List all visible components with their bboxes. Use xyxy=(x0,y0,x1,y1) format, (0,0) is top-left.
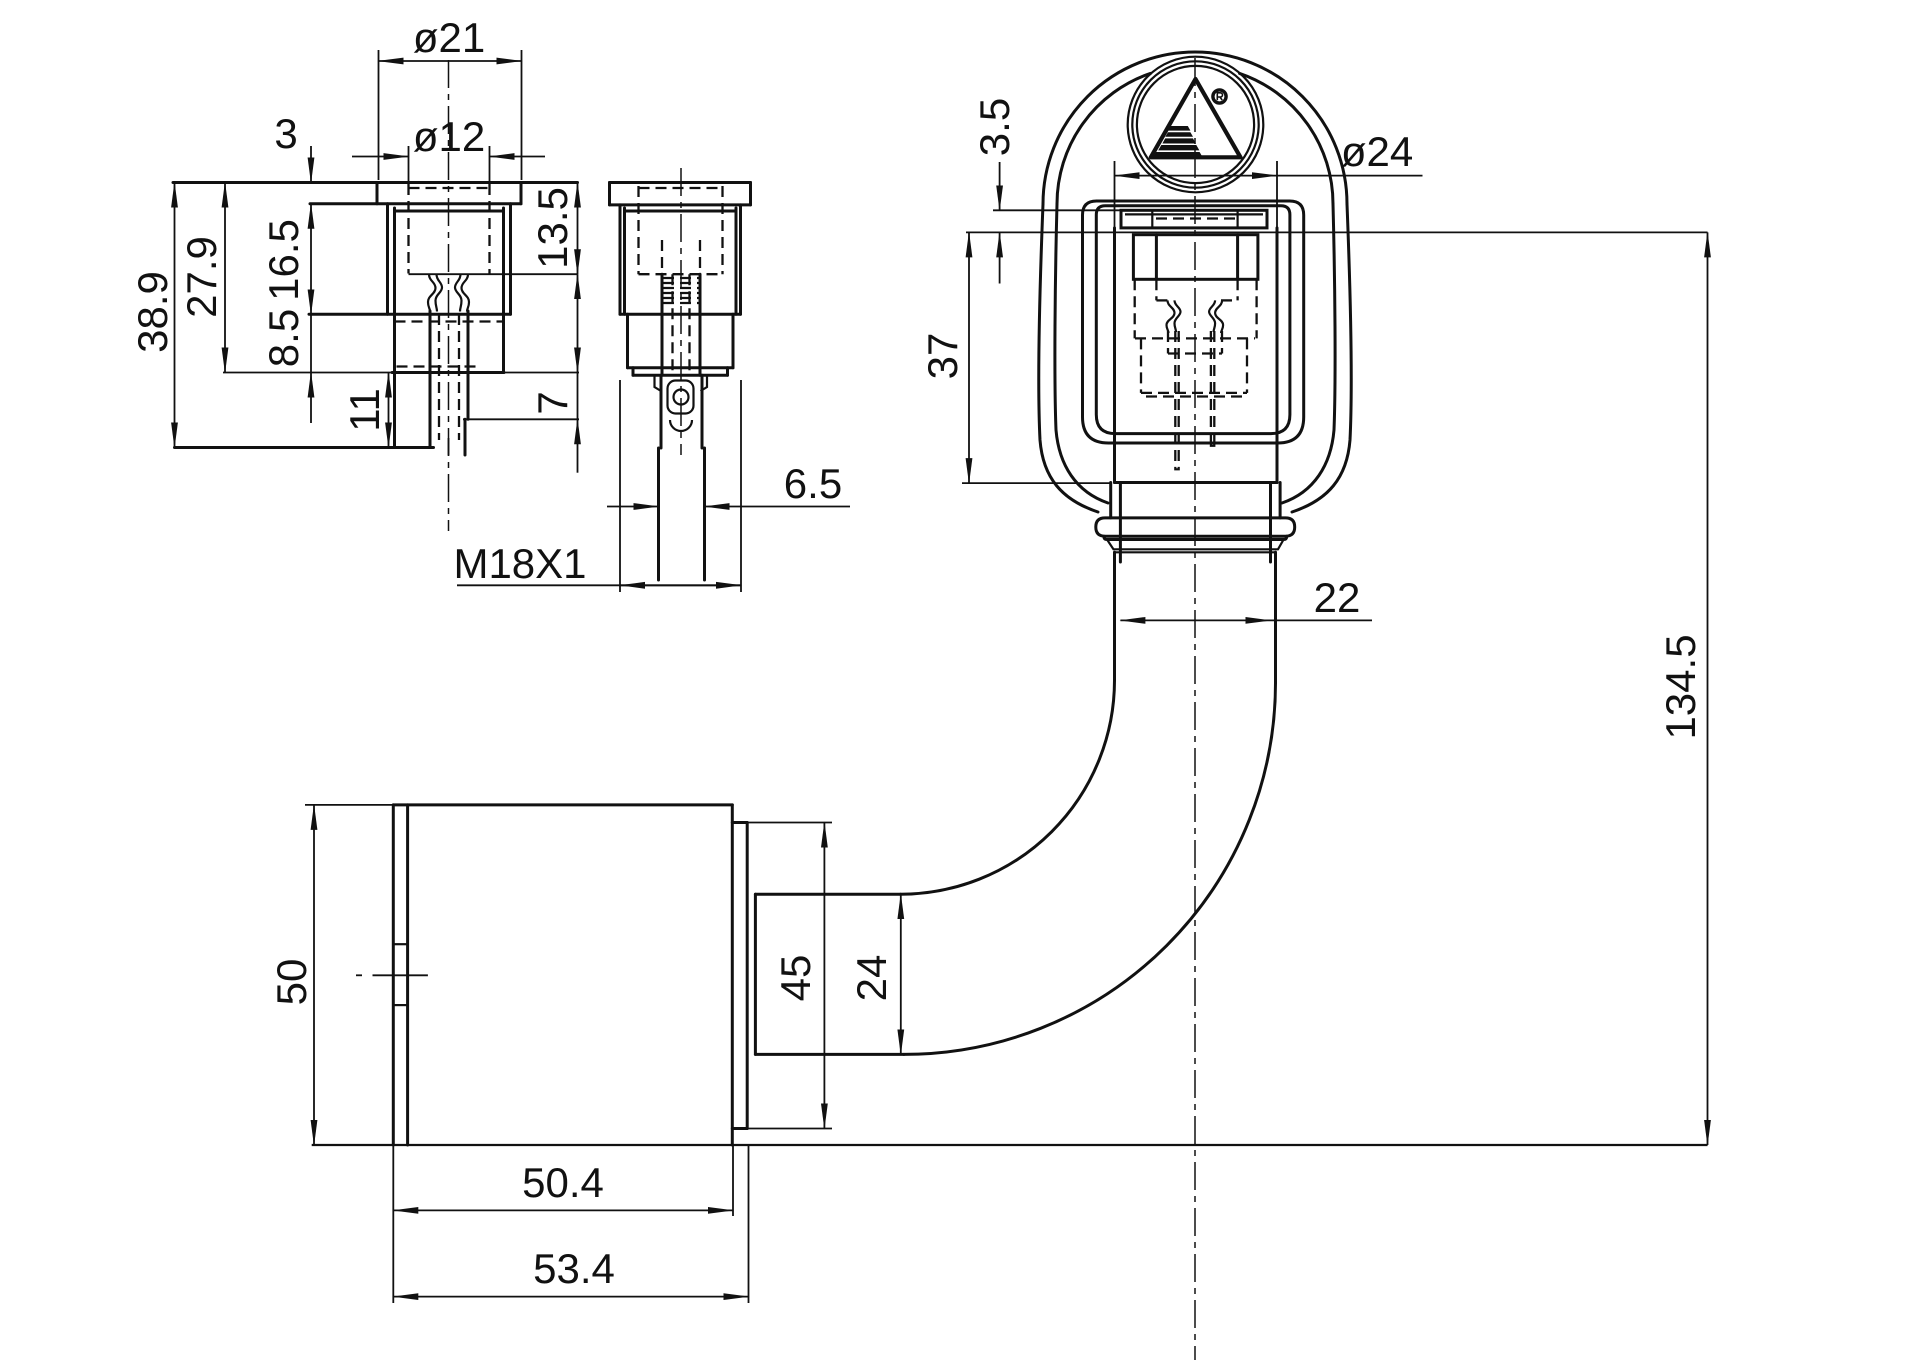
svg-text:50: 50 xyxy=(268,959,315,1006)
svg-text:ø24: ø24 xyxy=(1341,128,1413,175)
svg-text:134.5: 134.5 xyxy=(1657,634,1704,739)
svg-text:38.9: 38.9 xyxy=(129,271,176,353)
svg-text:11: 11 xyxy=(341,388,388,432)
svg-text:6.5: 6.5 xyxy=(784,460,842,507)
svg-text:ø12: ø12 xyxy=(413,113,485,160)
svg-text:50.4: 50.4 xyxy=(522,1159,604,1206)
svg-text:8.5: 8.5 xyxy=(260,309,307,367)
svg-text:3: 3 xyxy=(274,110,297,157)
svg-text:M18X1: M18X1 xyxy=(453,540,586,587)
svg-text:45: 45 xyxy=(772,955,819,1002)
svg-text:13.5: 13.5 xyxy=(529,187,576,269)
svg-text:37: 37 xyxy=(919,333,966,380)
svg-text:7: 7 xyxy=(529,391,576,414)
svg-text:3.5: 3.5 xyxy=(971,98,1018,156)
svg-text:16.5: 16.5 xyxy=(260,219,307,301)
svg-text:22: 22 xyxy=(1314,574,1361,621)
svg-text:53.4: 53.4 xyxy=(533,1245,615,1292)
svg-text:27.9: 27.9 xyxy=(178,236,225,318)
svg-text:24: 24 xyxy=(848,955,895,1002)
svg-text:ø21: ø21 xyxy=(413,14,485,61)
